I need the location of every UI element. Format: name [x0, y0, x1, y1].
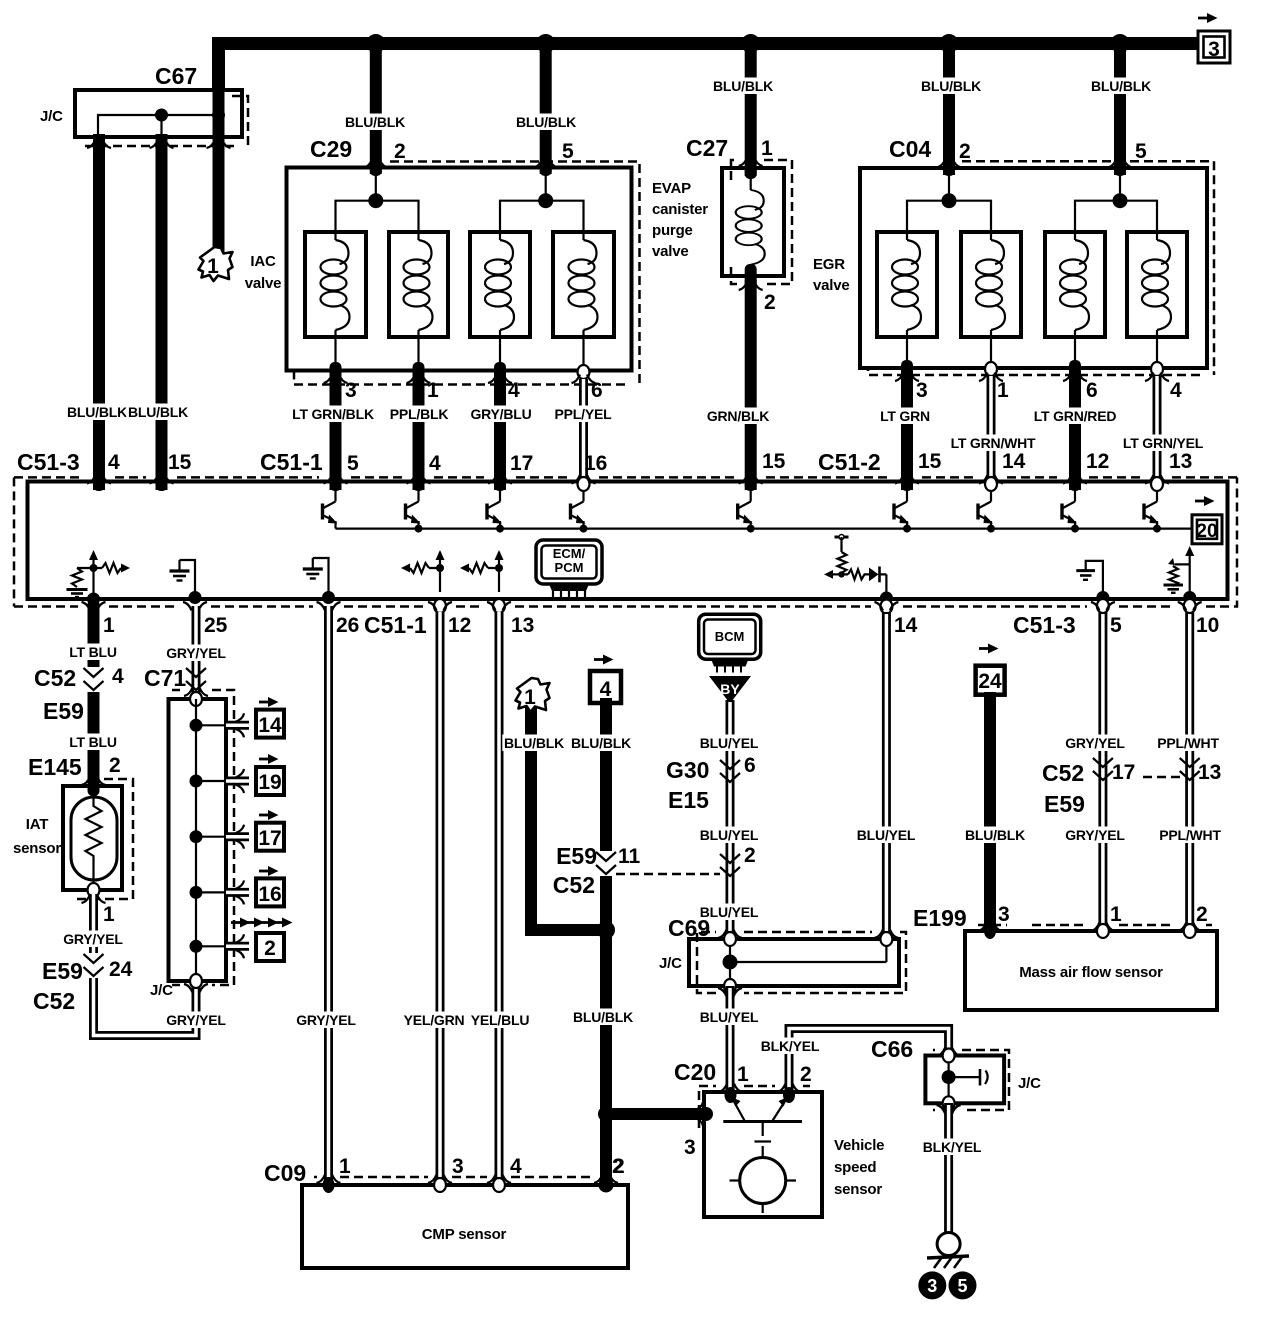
hooks bottom row: [82, 602, 106, 611]
pin stub C29 pin 5: [540, 162, 552, 176]
wire: C71 tap 3: [196, 836, 226, 838]
svg-text:BLK/YEL: BLK/YEL: [923, 1139, 982, 1155]
ECM/PCM main box: [28, 482, 1228, 600]
splice G30/E15 pin 6: [720, 760, 740, 782]
connector C71 dashed outline: [172, 690, 234, 985]
pin stub C04 pin 3: [901, 360, 913, 378]
off-page box 14: [256, 710, 284, 738]
svg-text:GRY/YEL: GRY/YEL: [63, 931, 123, 947]
hooks top row: [87, 475, 111, 484]
svg-text:3: 3: [345, 379, 357, 402]
wire: bus drop to C27 pin 1 BLU/BLK: [745, 44, 757, 177]
ECM/PCM module icon: [536, 540, 602, 597]
chassis ground symbol: [927, 1256, 969, 1258]
svg-text:13: 13: [1169, 450, 1192, 473]
svg-text:C52: C52: [33, 988, 75, 1014]
off-page box 4: [590, 671, 621, 703]
svg-text:E59: E59: [43, 698, 84, 724]
label BLU/BLK at C27 pin 1: [711, 78, 774, 95]
EGR solenoid winding 3 coil: [1060, 240, 1089, 330]
label LT GRN: [878, 408, 932, 425]
pin oval C09 pin 4: [493, 1178, 505, 1192]
svg-text:C51-2: C51-2: [818, 449, 881, 475]
ECM internal pull-up at pin 10: [1164, 546, 1195, 596]
label BLU/BLK on C67 wire 4: [65, 404, 128, 421]
off-page box 16: [256, 878, 284, 906]
svg-text:4: 4: [1170, 379, 1182, 402]
pin stub C29 pin 3: [330, 362, 342, 380]
wire: C04 internal from pin 5: [1119, 174, 1121, 201]
svg-text:26: 26: [336, 614, 359, 637]
label BLU/YEL 1: [698, 735, 761, 752]
svg-text:6: 6: [744, 754, 756, 777]
wire: LT GRN/RED C04 pin6 to C51-2 pin 12: [1069, 370, 1081, 490]
label GRY/YEL below C71: [165, 1012, 228, 1029]
wire: C29 internal pair bus 1: [336, 201, 419, 240]
pin stub E199 pin 3: [984, 923, 996, 939]
svg-text:BY: BY: [720, 681, 740, 697]
EGR valve assembly box (C04): [860, 168, 1207, 368]
svg-text:15: 15: [918, 450, 942, 473]
pin stub C29 pin 1: [413, 362, 425, 380]
driver transistor for C51-2 pin 13: [1144, 490, 1159, 529]
four arrows above box 2: [231, 918, 251, 928]
svg-text:BLU/BLK: BLU/BLK: [571, 735, 631, 751]
node: bus junction at C29 pin 2: [366, 34, 385, 53]
svg-text:GRY/YEL: GRY/YEL: [1065, 827, 1125, 843]
BY takeover triangle: [709, 676, 751, 704]
node C71 junction 1: [190, 719, 203, 732]
wire: GRY/YEL C51-1 pin 26 to CMP pin 1: [324, 606, 333, 1185]
svg-text:sensor: sensor: [834, 1181, 882, 1198]
label LT BLU lower: [67, 734, 120, 751]
label BLU/BLK at C29 pin 5: [514, 114, 577, 131]
svg-text:BLU/YEL: BLU/YEL: [700, 735, 759, 751]
nodes on emitter rail: [415, 525, 423, 533]
pin oval C71 top: [190, 692, 202, 706]
svg-text:3: 3: [916, 379, 928, 402]
pin stub C51-1 pin4: [413, 480, 425, 491]
connector C27 dashed outline: [731, 160, 792, 284]
node C71 junction 5: [190, 940, 203, 953]
node: C67 internal junction 2: [212, 109, 225, 122]
svg-text:5: 5: [1110, 614, 1122, 637]
node ECM pin 14 bottom: [880, 592, 893, 605]
connector E145 dashed outline: [75, 779, 133, 899]
pin stub C29 pin 4: [494, 362, 506, 380]
svg-text:BLU/YEL: BLU/YEL: [700, 827, 759, 843]
IAT sensor box (E145): [63, 786, 122, 890]
stub wire to box 17: [226, 832, 249, 841]
svg-text:2: 2: [800, 1063, 812, 1086]
node: C29 internal junction pin2: [368, 193, 383, 208]
svg-text:2: 2: [394, 140, 406, 163]
pin stub ECM pin 1 bottom: [88, 599, 100, 613]
svg-text:valve: valve: [813, 277, 850, 294]
svg-text:E145: E145: [28, 754, 82, 780]
arrow up at pin1 line: [89, 550, 98, 560]
pin stub C27 pin 2: [745, 264, 757, 288]
label PPL/YEL: [552, 406, 615, 423]
svg-text:2: 2: [613, 1155, 625, 1178]
junction block C69 J/C box: [689, 939, 899, 986]
svg-text:GRY/YEL: GRY/YEL: [166, 645, 226, 661]
svg-text:C66: C66: [871, 1036, 913, 1062]
wire: BLK/YEL VSS pin 2 up and over to C66: [789, 1029, 949, 1093]
svg-text:J/C: J/C: [150, 982, 173, 999]
svg-text:C04: C04: [889, 136, 931, 162]
driver transistor for C51-1 pin 17: [487, 490, 502, 529]
off-page reference box 3: [1198, 13, 1230, 63]
svg-text:E59: E59: [556, 843, 597, 869]
svg-text:C51-1: C51-1: [364, 612, 427, 638]
wire: C04 internal pair bus 1: [907, 201, 991, 240]
pin oval C71 bottom: [190, 974, 202, 988]
wire: C04 internal from pin 2: [948, 174, 950, 201]
connector C66 dashed outline: [933, 1050, 1009, 1110]
svg-text:C29: C29: [310, 136, 352, 162]
label BLU/BLK at C04 pin 5: [1089, 78, 1152, 95]
pin oval E199 pin 1: [1097, 924, 1109, 938]
svg-text:3: 3: [998, 903, 1010, 926]
label BLU/BLK (MAF): [963, 827, 1026, 844]
svg-text:YEL/BLU: YEL/BLU: [471, 1012, 530, 1028]
pin stub C51-2 pin15a: [745, 480, 757, 491]
svg-text:6: 6: [1086, 379, 1098, 402]
wire: C67 output BLU/BLK to C51-3 pin 15: [156, 134, 168, 490]
svg-text:C52: C52: [34, 665, 76, 691]
svg-text:12: 12: [1086, 450, 1109, 473]
driver transistor for C51-1 pin 5: [323, 490, 338, 529]
svg-text:IAT: IAT: [26, 816, 48, 833]
IAT thermistor zigzag: [86, 797, 102, 890]
svg-text:PPL/WHT: PPL/WHT: [1159, 827, 1221, 843]
svg-text:IAC: IAC: [250, 253, 276, 270]
resistor to ground at pin1: [72, 568, 94, 587]
wire: LT GRN C04 pin3 to C51-2 pin 15: [901, 370, 913, 490]
wire: BLU/YEL C51-2 pin 14 to C69: [882, 612, 891, 940]
svg-text:BLU/BLK: BLU/BLK: [573, 1009, 633, 1025]
svg-text:3: 3: [684, 1136, 696, 1159]
wire: BLU/YEL from BCM to C69: [726, 700, 735, 940]
svg-text:1: 1: [207, 255, 219, 278]
svg-text:17: 17: [510, 452, 533, 475]
junction block C67 J/C box: [75, 90, 242, 137]
wire: C71 internal bus: [195, 699, 197, 981]
svg-text:LT GRN/WHT: LT GRN/WHT: [951, 435, 1036, 451]
svg-text:4: 4: [508, 379, 520, 402]
wire: BLU/BLK to VSS pin 3: [606, 1108, 706, 1120]
svg-text:PCM: PCM: [555, 560, 584, 575]
pin stub C09 pin 1: [323, 1177, 335, 1193]
splice E59/C52 pin 11: [596, 851, 616, 876]
svg-text:1: 1: [737, 1063, 749, 1086]
connector C04 dashed outline: [868, 161, 1214, 375]
svg-text:BLU/BLK: BLU/BLK: [128, 404, 188, 420]
wire: BLU/BLK box 24 to MAF pin 3: [984, 692, 996, 931]
wire: ECM internal emitter rail: [336, 527, 1193, 529]
IAC solenoid winding 1 frame: [305, 232, 366, 337]
svg-text:BLK/YEL: BLK/YEL: [761, 1038, 820, 1054]
connector C09 dashed line: [314, 1176, 594, 1179]
svg-text:J/C: J/C: [40, 108, 63, 125]
svg-text:16: 16: [584, 452, 607, 475]
pin oval C04 pin 1: [985, 362, 997, 376]
off-page reference box 20: [1192, 496, 1222, 544]
pin stub C51-1 pin17: [494, 480, 506, 491]
driver transistor for C51-2 pin 15b: [894, 490, 909, 529]
svg-text:valve: valve: [245, 275, 282, 292]
driver transistor for C51-2 pin 15a: [738, 490, 753, 529]
ECM internal circuit at pin 14: clamp resistor and diode: [824, 535, 892, 603]
svg-text:BLU/BLK: BLU/BLK: [921, 78, 981, 94]
svg-text:5: 5: [957, 1276, 967, 1296]
label LT GRN/WHT: [950, 435, 1036, 452]
wire C66 internal: [949, 1056, 979, 1104]
node: bus junction at C29 pin 5: [536, 34, 555, 53]
node: C04 internal junction pin2: [942, 193, 957, 208]
svg-text:valve: valve: [652, 243, 689, 260]
svg-text:BLU/BLK: BLU/BLK: [67, 404, 127, 420]
svg-text:PPL/BLK: PPL/BLK: [390, 406, 449, 422]
off-page box 19: [256, 767, 284, 795]
svg-text:24: 24: [109, 958, 133, 981]
wire: bus left end drop into C67: [212, 40, 225, 92]
node ECM pin 5 bottom: [1096, 591, 1109, 604]
svg-text:C51-3: C51-3: [1013, 612, 1076, 638]
svg-text:4: 4: [600, 678, 612, 701]
off-page box 17: [256, 823, 284, 851]
wire: YEL/BLU C51-1 pin 13 to CMP pin 4: [495, 612, 504, 1185]
node: bus junction at C04 pin 5: [1111, 34, 1130, 53]
svg-text:16: 16: [258, 883, 281, 906]
svg-text:10: 10: [1196, 614, 1219, 637]
svg-text:2: 2: [959, 140, 971, 163]
pin stub C04 pin 2: [943, 162, 955, 176]
node: C29 internal junction pin5: [538, 193, 553, 208]
wire: C71 tap 5: [196, 945, 226, 947]
pin stub C20 pin 2: [783, 1087, 795, 1103]
svg-text:1: 1: [761, 137, 773, 160]
pin oval C29 pin 6: [578, 365, 590, 379]
connector C29 dashed outline: [294, 162, 640, 385]
svg-text:LT BLU: LT BLU: [69, 644, 117, 660]
svg-text:20: 20: [1196, 521, 1217, 542]
pin oval C04 pin 4: [1151, 362, 1163, 376]
EGR solenoid winding 3 frame: [1045, 232, 1105, 337]
svg-text:19: 19: [258, 771, 281, 794]
ground terminal circle: [937, 1233, 960, 1256]
svg-text:BLU/YEL: BLU/YEL: [700, 1009, 759, 1025]
wire: PPL/WHT C51-3 pin 10 to MAF pin 2: [1185, 612, 1194, 931]
node ECM pin 10 bottom: [1183, 591, 1196, 604]
wire: C69 internal: [730, 939, 886, 986]
label GRY/BLU: [469, 406, 532, 423]
svg-text:1: 1: [1110, 903, 1122, 926]
label LT BLU upper: [67, 644, 120, 661]
pin stub C51-3 pin4: [93, 480, 105, 491]
label GRN/BLK: [706, 408, 770, 425]
IAC valve assembly box (C29): [287, 168, 632, 371]
node C20 pin 3: [699, 1107, 713, 1121]
EVAP canister purge valve box (C27): [722, 168, 784, 276]
wire: LT GRN/WHT C04 pin1 to C51-2 pin 14: [987, 376, 996, 486]
pin stub C51-2 pin15b: [901, 480, 913, 491]
pin oval E199 pin 2: [1184, 924, 1196, 938]
svg-text:1: 1: [103, 614, 115, 637]
wire: C04 internal pair bus 2: [1075, 201, 1157, 240]
label BLU/BLK on C67 wire 15: [126, 404, 189, 421]
CMP sensor box (C09): [302, 1185, 628, 1268]
pin oval C51-1 pin16: [578, 477, 590, 491]
svg-text:BLU/BLK: BLU/BLK: [1091, 78, 1151, 94]
svg-text:E199: E199: [913, 905, 967, 931]
EGR solenoid winding 2 frame: [961, 232, 1021, 337]
svg-text:purge: purge: [652, 222, 693, 239]
pin oval E145 pin 1: [88, 883, 100, 897]
svg-text:14: 14: [258, 714, 282, 737]
off-page box 24: [976, 666, 1005, 695]
wire: LT GRN/YEL C04 pin4 to C51-2 pin 13: [1153, 376, 1162, 486]
wire: BLU/BLK from box 4 down to CMP pin 2: [600, 698, 612, 1185]
wire: bus drop to C04 pin 5 BLU/BLK: [1114, 44, 1126, 176]
svg-text:15: 15: [762, 450, 786, 473]
driver transistor for C51-2 pin 12: [1062, 490, 1077, 529]
node: C67 internal junction 1: [155, 109, 168, 122]
pin ovals C66: [943, 1049, 955, 1063]
wire: GRN/BLK C27 pin2 to C51-2 pin 15: [745, 280, 757, 490]
resistor arrow right at pin1: [94, 563, 122, 573]
IAC solenoid winding 2 frame: [389, 232, 448, 337]
svg-text:5: 5: [562, 140, 574, 163]
svg-text:2: 2: [109, 754, 121, 777]
node ECM pin 1: [87, 593, 100, 606]
junction block C66 J/C box: [925, 1056, 1004, 1104]
IAC solenoid winding 2 coil: [404, 240, 433, 330]
svg-text:3: 3: [452, 1155, 464, 1178]
pin stub C04 pin 5: [1114, 162, 1126, 176]
label LT GRN/RED: [1032, 408, 1118, 425]
svg-text:13: 13: [511, 614, 534, 637]
svg-text:15: 15: [168, 451, 192, 474]
wire: GRY/YEL from C51-1 pin 25 to C71: [192, 606, 201, 700]
node C69 junction: [723, 955, 738, 970]
wire: GRY/YEL C51-3 pin 5 to MAF pin 1: [1098, 612, 1107, 931]
svg-text:BLU/BLK: BLU/BLK: [713, 78, 773, 94]
svg-text:2: 2: [264, 937, 276, 960]
label BLU/YEL 2: [698, 827, 761, 844]
label PPL/BLK: [387, 406, 450, 423]
svg-text:25: 25: [204, 614, 228, 637]
svg-text:C09: C09: [264, 1160, 306, 1186]
svg-text:GRN/BLK: GRN/BLK: [707, 408, 769, 424]
label BLU/BLK (arrow 1 wire): [502, 735, 565, 752]
stub wire to box 2: [226, 942, 249, 951]
svg-text:EVAP: EVAP: [652, 180, 691, 197]
svg-text:C27: C27: [686, 135, 728, 161]
IAC solenoid winding 1 coil: [321, 240, 350, 330]
connector E199 dashed line: [978, 924, 1212, 927]
wire: LT GRN/BLK C29 pin3 to C51-1 pin 5: [330, 372, 342, 490]
label GRY/YEL (IAT return): [62, 931, 125, 948]
label YEL/BLU: [469, 1012, 532, 1029]
label BLU/BLK (box 4 wire): [569, 735, 632, 752]
svg-text:17: 17: [1112, 761, 1135, 784]
stub wire to box 14: [226, 721, 249, 730]
svg-text:5: 5: [1135, 140, 1147, 163]
ECM internal ground at pin 26: [303, 558, 329, 597]
svg-text:E59: E59: [42, 958, 83, 984]
VSS internal bar: [723, 1120, 802, 1123]
node: C04 internal junction pin5: [1113, 193, 1128, 208]
splice C52/E59 pin 4 on LT BLU: [84, 667, 104, 692]
svg-text:speed: speed: [834, 1159, 876, 1176]
label GRY/YEL (CMP): [295, 1012, 358, 1029]
driver transistor for C51-1 pin 4: [406, 490, 421, 529]
pin stub C27 pin 1: [745, 163, 757, 179]
svg-text:3: 3: [927, 1276, 937, 1296]
connector C69 dashed outline: [697, 932, 906, 993]
svg-text:2: 2: [1196, 903, 1208, 926]
pin oval C51-2 pin13: [1151, 477, 1163, 491]
svg-text:12: 12: [448, 614, 471, 637]
label GRY/YEL at pin 25: [165, 645, 228, 662]
label PPL/WHT lower: [1158, 827, 1221, 844]
svg-text:sensor: sensor: [13, 840, 61, 857]
svg-text:1: 1: [103, 903, 115, 926]
wire: bus drop to C04 pin 2 BLU/BLK: [943, 44, 955, 176]
off-page arrow 1 (IAC valve feed): [199, 247, 233, 281]
svg-text:14: 14: [894, 614, 918, 637]
node C71 junction 2: [190, 775, 203, 788]
svg-text:G30: G30: [666, 757, 709, 783]
label BLU/BLK at C29 pin 2: [343, 114, 406, 131]
svg-text:4: 4: [108, 451, 120, 474]
off-page arrow 1 (bottom): [516, 678, 550, 712]
svg-text:Mass air flow sensor: Mass air flow sensor: [1019, 964, 1163, 981]
svg-text:4: 4: [510, 1155, 522, 1178]
svg-text:17: 17: [258, 827, 281, 850]
pin oval C51-2 pin14: [985, 477, 997, 491]
wire: BLU/BLK from arrow 1 to junction: [525, 705, 606, 930]
pin stub C04 pin 6: [1069, 360, 1081, 378]
svg-text:BLU/BLK: BLU/BLK: [965, 827, 1025, 843]
svg-text:YEL/GRN: YEL/GRN: [404, 1012, 465, 1028]
label BLU/YEL 4: [698, 1009, 761, 1026]
svg-text:LT GRN/YEL: LT GRN/YEL: [1123, 435, 1204, 451]
Mass air flow sensor box: [965, 931, 1217, 1010]
svg-text:GRY/YEL: GRY/YEL: [166, 1012, 226, 1028]
splice pin 13 on PPL/WHT: [1180, 758, 1200, 780]
wire: LT BLU from C51-3 pin1 to E145 pin 2: [88, 606, 100, 784]
EGR solenoid winding 1 frame: [877, 232, 937, 337]
wire: C29 internal pair bus 2: [500, 201, 584, 240]
svg-text:BLU/YEL: BLU/YEL: [857, 827, 916, 843]
driver transistor for C51-2 pin 14: [978, 490, 993, 529]
VSS internal sensor arrows: [732, 1098, 745, 1122]
driver transistor for C51-1 pin 16: [571, 490, 586, 529]
svg-text:C52: C52: [553, 872, 595, 898]
wire: C29 internal from pin 5: [545, 174, 547, 201]
pin stub C51-2 pin12: [1069, 480, 1081, 491]
wire: GRY/YEL from IAT pin1 down and over to C71 J/C: [94, 894, 197, 1036]
svg-text:14: 14: [1002, 450, 1026, 473]
node ECM pin 26: [322, 591, 335, 604]
label YEL/GRN: [402, 1012, 465, 1029]
label PPL/WHT upper: [1156, 735, 1219, 752]
pin ovals C69: [724, 932, 736, 946]
splice pin 2 on BLU/YEL: [720, 854, 740, 876]
